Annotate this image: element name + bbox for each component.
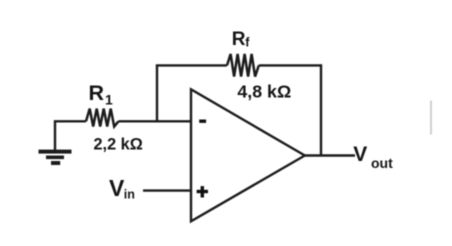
- wire: inverting input net, ground corner to op-amp minus input: [55, 121, 191, 150]
- resistor Rf: [227, 54, 259, 77]
- op-amp U1: [191, 89, 305, 221]
- wire: output lead from op-amp apex to Vout: [304, 154, 355, 156]
- wire: feedback left vertical (junction at minus input net): [156, 65, 158, 121]
- pin label plus (non-inverting input): [197, 186, 208, 197]
- svg-text:4,8 kΩ: 4,8 kΩ: [237, 82, 291, 102]
- wire: feedback top, left segment: [156, 64, 227, 66]
- svg-text:in: in: [124, 188, 135, 202]
- svg-text:R: R: [232, 29, 246, 50]
- svg-text:out: out: [371, 155, 393, 171]
- svg-text:2,2 kΩ: 2,2 kΩ: [94, 135, 143, 153]
- wire: feedback right vertical down to output node: [320, 64, 322, 155]
- svg-text:R: R: [89, 81, 105, 105]
- pin label minus (inverting input): [199, 120, 206, 123]
- resistor R1: [86, 109, 119, 127]
- svg-text:V: V: [109, 175, 125, 201]
- ground: [39, 150, 72, 165]
- wire: feedback top, right segment: [259, 64, 321, 66]
- decorative faint scrollbar line (right side): [430, 101, 432, 135]
- wire: Vin lead to plus input: [143, 189, 191, 191]
- svg-text:V: V: [353, 143, 367, 166]
- svg-text:1: 1: [105, 92, 113, 108]
